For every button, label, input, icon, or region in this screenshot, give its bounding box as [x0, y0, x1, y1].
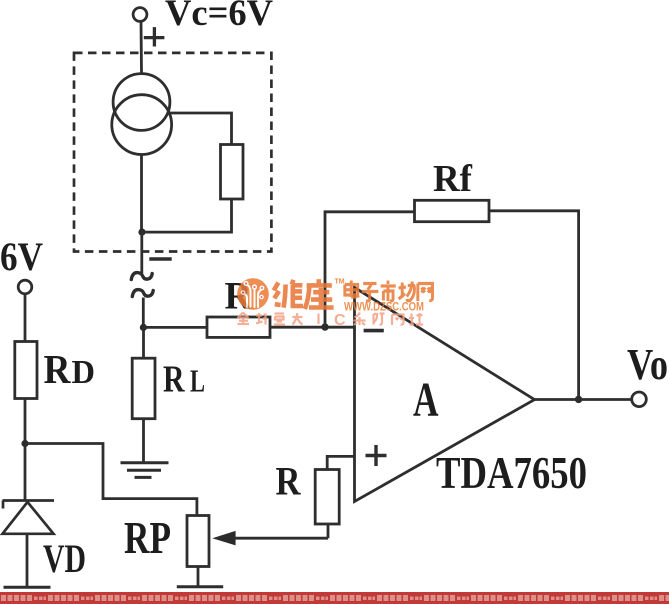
svg-text:D: D	[72, 354, 96, 391]
wire	[142, 298, 145, 330]
ground (RP)	[177, 587, 223, 603]
wire	[143, 326, 207, 329]
break squiggle	[131, 273, 153, 297]
terminal Vo	[632, 392, 647, 407]
footer banner	[0, 592, 669, 604]
svg-text:WWW.DZSC.COM: WWW.DZSC.COM	[344, 302, 424, 314]
resistor Rf	[415, 200, 490, 221]
resistor RL	[132, 358, 155, 419]
svg-text:6V: 6V	[0, 234, 43, 279]
ground (VD)	[4, 587, 51, 602]
wire	[140, 22, 143, 74]
terminal Vc	[133, 8, 147, 22]
diode VD	[3, 501, 55, 534]
wire	[168, 113, 232, 145]
junction	[140, 324, 147, 331]
wire	[25, 444, 197, 516]
wire	[142, 329, 145, 358]
junction	[21, 440, 28, 447]
svg-text:TDA7650: TDA7650	[436, 447, 587, 498]
wire	[140, 154, 143, 233]
wire (output)	[535, 398, 632, 401]
svg-text:VD: VD	[43, 536, 86, 581]
wire	[327, 456, 354, 469]
label + (positive)	[144, 27, 165, 46]
watermark	[237, 278, 432, 329]
wire	[26, 534, 29, 587]
wire	[197, 567, 200, 587]
watermark 维	[274, 280, 303, 308]
svg-text:TM: TM	[335, 279, 345, 286]
wire	[142, 199, 232, 232]
junction	[138, 229, 145, 236]
wire	[270, 326, 355, 329]
resistor R (to + input)	[315, 470, 339, 525]
svg-text:R: R	[276, 459, 302, 504]
label - (negative)	[149, 257, 171, 261]
svg-text:A: A	[413, 372, 439, 427]
current source B1	[113, 74, 170, 131]
dashed enclosure	[74, 53, 271, 252]
wire	[142, 419, 145, 463]
label + (non-inverting input)	[366, 445, 387, 466]
svg-text:R: R	[163, 359, 185, 401]
svg-text:L: L	[190, 363, 205, 399]
resistor R (series input)	[207, 317, 270, 337]
svg-text:R: R	[44, 346, 71, 392]
junction	[321, 323, 328, 330]
terminal 6V	[18, 280, 32, 294]
wire (feedback riser)	[325, 212, 415, 327]
svg-text:RP: RP	[124, 513, 171, 563]
svg-text:Vo: Vo	[627, 340, 668, 389]
resistor (internal shunt)	[221, 145, 244, 200]
junction	[575, 396, 582, 403]
resistor RD	[15, 342, 37, 399]
svg-text:Rf: Rf	[433, 158, 473, 200]
op-amp A	[355, 288, 535, 502]
svg-text:Vc=6V: Vc=6V	[165, 0, 273, 33]
wire	[24, 399, 27, 501]
wire	[489, 211, 579, 400]
wire	[327, 524, 330, 538]
watermark slogan row	[238, 313, 303, 325]
potentiometer RP	[187, 516, 209, 567]
wiper arrow of RP	[212, 531, 328, 546]
svg-text:C: C	[334, 312, 346, 329]
wire	[140, 232, 143, 273]
label - (inverting input)	[364, 329, 384, 333]
watermark logo disc	[237, 278, 269, 310]
wire	[24, 294, 27, 342]
ground (RL)	[121, 463, 169, 478]
watermark 库	[305, 279, 334, 309]
watermark 电子市场网	[345, 281, 433, 302]
